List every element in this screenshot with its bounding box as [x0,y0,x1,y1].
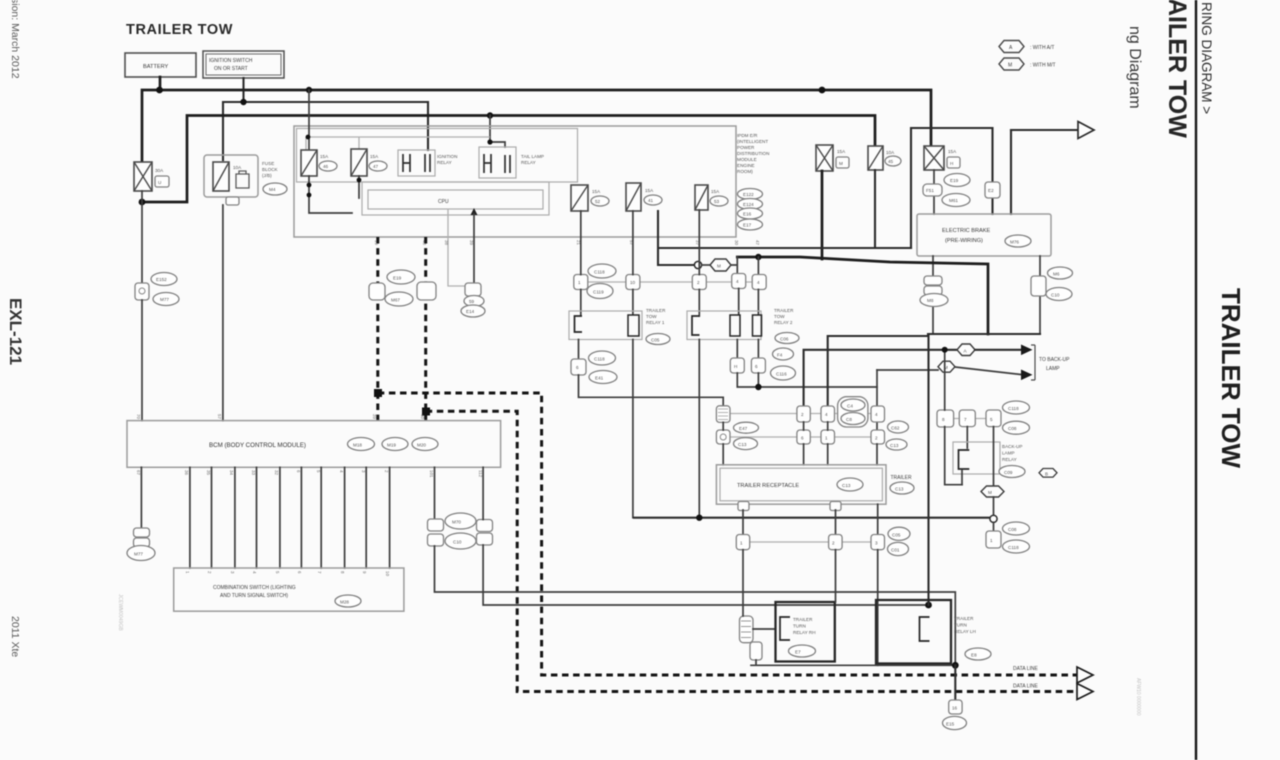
IPDM internal feed bus [306,137,490,150]
svg-text:F51: F51 [926,188,934,193]
lens A on backup line [957,344,975,356]
connector on brake right output [1031,267,1073,301]
wire CAN-L dashed branch to data line [426,411,1077,691]
legend lens M with M/T [999,58,1056,70]
node fuse1 lower dots [307,183,312,188]
svg-text:32: 32 [274,470,279,476]
wire backup feed A branch [804,350,957,406]
fusible link F (battery 30A) [134,162,169,191]
wire relay1 output to receptacle [579,375,724,406]
svg-text:46: 46 [323,164,329,169]
wire circle to lower pin [993,522,995,531]
svg-text:BACK-UP: BACK-UP [1002,444,1022,449]
lens M lower [981,486,1004,497]
fuse1 output loop [309,176,359,213]
svg-text:TOW: TOW [646,314,657,319]
wires rows into receptacle [723,422,877,465]
svg-text:TRAILER TOW: TRAILER TOW [126,22,233,38]
node turn relay ground junction [952,662,959,669]
svg-text:AND TURN SIGNAL SWITCH): AND TURN SIGNAL SWITCH) [220,593,288,599]
wire BCM pin112 [482,467,484,519]
svg-text:41: 41 [648,198,654,203]
wire CPU gray return [448,209,466,286]
svg-text:CPU: CPU [438,199,449,205]
svg-text:M77: M77 [160,297,169,302]
hatched connector at turn relay RH [740,550,776,643]
wire connector to BCM pin 70 [141,300,143,421]
connector cluster E19 M61 on brake batt wire [923,174,970,207]
svg-text:M18: M18 [353,443,362,448]
tail lamp relay [479,147,544,178]
svg-text:TURN: TURN [954,623,967,628]
svg-text:40: 40 [420,414,425,420]
connector E152 inline [135,273,179,306]
legend lens A with A/T [999,41,1054,53]
wire receptacle pin3 to turn relay area [877,550,879,666]
bracket to back-up lamp [1031,345,1035,380]
svg-text:MODULE: MODULE [737,157,757,162]
svg-text:C62: C62 [891,426,900,431]
svg-text:C08: C08 [1008,527,1017,532]
svg-text:57: 57 [217,414,222,420]
wire to back-up lamp arrow top [1011,129,1078,131]
connector ovals right of row C [886,421,909,450]
svg-text:M28: M28 [340,600,349,605]
ignition relay [398,150,457,176]
node CAN-H branch [374,389,382,397]
node LH coil junction [925,602,932,609]
fuse 15A no52 [571,185,609,211]
svg-text:RELAY: RELAY [521,160,536,165]
data line open arrow 2 [1077,684,1093,700]
IPDM inner fuse/relay sub-box [297,129,578,183]
BCM top pin numbers [136,414,425,420]
svg-text:: WITH A/T: : WITH A/T [1030,45,1054,51]
svg-text:E124: E124 [743,202,754,207]
svg-text:RELAY RH: RELAY RH [793,630,816,635]
svg-text:: WITH M/T: : WITH M/T [1030,63,1056,69]
svg-text:M70: M70 [452,520,461,525]
svg-text:15A: 15A [592,189,601,194]
wire turn signal LH to relay [483,545,928,605]
svg-text:36: 36 [184,470,189,476]
svg-text:(INTELLIGENT: (INTELLIGENT [737,139,768,144]
svg-text:E19: E19 [950,178,959,183]
svg-text:M4: M4 [269,187,276,192]
svg-text:4: 4 [757,280,760,285]
svg-text:C119: C119 [593,290,604,295]
node coil feed branch [755,254,761,260]
svg-text:C10: C10 [453,540,462,545]
svg-text:6: 6 [755,364,758,369]
wire arrow feed down to brake [1010,130,1012,214]
receptacle pin row B [716,406,884,423]
wire to filled arrow A [975,349,1021,351]
wire fusible link M down [821,171,824,259]
svg-text:DATA LINE: DATA LINE [1013,666,1038,672]
svg-text:TRAILER: TRAILER [646,308,666,313]
receptacle pin row C [716,430,884,444]
trailer tow relay 2 box [687,311,762,340]
arrow filled backup A [1021,345,1033,356]
wire fuse1 feed through IPDM top [308,90,310,150]
svg-text:E47: E47 [739,426,748,431]
connector ovals E47 C13 left [734,422,759,449]
wire ignition drop [242,78,244,102]
CPU outer box [362,182,549,215]
svg-text:45: 45 [888,159,894,164]
RH relay bottom pin [750,642,762,660]
svg-text:EXL-121: EXL-121 [6,298,25,365]
svg-text:M20: M20 [417,443,426,448]
BCM body control module box [127,421,501,468]
node relay2 output junction [755,384,761,390]
svg-text:5: 5 [990,417,993,422]
svg-text:IGNITION SWITCH: IGNITION SWITCH [209,58,253,64]
ground bus under turn relays [751,660,955,665]
svg-text:1: 1 [825,436,828,441]
svg-text:2: 2 [832,541,835,546]
ignition switch box [203,51,284,78]
svg-text:AILER TOW: AILER TOW [1163,0,1191,138]
node IPDM internal junction [306,135,311,140]
svg-text:C118: C118 [594,270,605,275]
svg-text:15A: 15A [711,189,720,194]
IPDM bottom pin numbers [374,240,760,246]
svg-text:15A: 15A [320,154,329,159]
relay1 contact output pin [571,340,617,384]
trailer receptacle outer label [890,475,914,494]
bus brake to backup/turn relays [928,333,1040,335]
svg-text:15A: 15A [645,188,654,193]
trailer turn relay LH label [954,616,991,660]
svg-text:101: 101 [429,470,434,478]
svg-text:2: 2 [801,412,804,417]
label to back-up lamp [1039,357,1070,372]
svg-text:M: M [839,161,843,166]
node tail relay feed junction [487,112,493,118]
wire relay2 coil pin drop [757,257,759,275]
node battery junction [156,87,163,94]
svg-text:TURN: TURN [793,624,806,629]
svg-text:TO BACK-UP: TO BACK-UP [1039,357,1070,363]
svg-text:4: 4 [736,279,739,284]
fusible link H (15A) [924,146,960,170]
svg-text:47: 47 [373,164,379,169]
svg-text:15A: 15A [948,149,957,154]
connector pin row below IPDM [574,274,766,290]
wire battery drop [159,77,162,90]
svg-text:TAIL LAMP: TAIL LAMP [521,154,544,159]
wire BCM pin101 turn RH [434,467,436,519]
svg-text:C13: C13 [895,487,904,492]
IPDM E/R label block [737,133,769,230]
svg-text:C05: C05 [892,532,901,537]
wire turn RH upper branch [828,336,928,406]
node fuse1 feed junction [306,87,312,93]
svg-text:E122: E122 [743,192,754,197]
trailer tow relay 1 label [646,308,670,345]
wire brake net down to LH coil [927,334,929,605]
svg-text:BLOCK: BLOCK [262,167,279,172]
svg-text:8: 8 [942,417,945,422]
wire relay2 outputs to receptacle [737,373,877,387]
svg-text:16: 16 [952,706,958,711]
svg-text:C05: C05 [651,338,660,343]
svg-text:ROOM): ROOM) [737,169,753,174]
svg-text:TRAILER: TRAILER [891,475,913,481]
combination switch pin numbers [185,571,390,577]
wire option branch with circle split [658,211,911,265]
svg-text:1: 1 [990,538,993,543]
svg-text:59: 59 [469,299,475,304]
svg-text:E8: E8 [971,653,977,658]
wire brake output left [932,256,934,334]
svg-text:ON OR START: ON OR START [214,66,248,72]
svg-text:BCM (BODY CONTROL MODULE): BCM (BODY CONTROL MODULE) [209,442,306,449]
svg-text:30: 30 [734,240,739,246]
fuse 15A no41 [626,183,662,211]
svg-text:C118: C118 [594,357,605,362]
electric brake pre-wiring box [917,214,1051,256]
svg-text:C08: C08 [1008,426,1017,431]
wire battery fuse to connector [141,191,143,283]
svg-text:4: 4 [875,412,878,417]
svg-text:COMBINATION SWITCH (LIGHTING: COMBINATION SWITCH (LIGHTING [213,585,296,591]
svg-text:3: 3 [875,541,878,546]
connector E14 for CPU wires [461,283,485,317]
wire to filled arrow M [955,367,1021,375]
svg-text:C10: C10 [1051,293,1060,298]
wire receptacle pin2 to RH coil [835,550,837,602]
lens M on backup line [938,361,955,372]
svg-text:52: 52 [595,199,601,204]
svg-text:E17: E17 [743,223,752,228]
trailer tow relay 1 box [569,311,642,340]
wire trailer tow relay coil feed net [737,257,988,334]
wire fuse block to BCM pin 57 [222,205,224,421]
svg-text:C118: C118 [1008,545,1019,550]
backup relay pins row [937,410,1001,427]
svg-text:C13: C13 [738,442,747,447]
off-page open arrow top right [1078,122,1094,139]
connector row guide lines [588,282,986,542]
svg-text:TRAILER TOW: TRAILER TOW [1216,288,1246,469]
connector M70 C10 inline pair [428,513,493,549]
connector block double oval C4 [838,397,868,427]
battery box [125,53,196,77]
svg-text:7: 7 [964,417,967,422]
fuse 10A no45 [868,146,901,170]
connector on CAN-L [417,282,436,300]
connector ovals C118 C119 [587,264,616,299]
CPU box [368,190,543,209]
fuse 15A no46 [301,150,337,176]
node ground bus fuse junction [696,515,702,521]
svg-text:E19: E19 [393,276,402,281]
svg-text:E15: E15 [946,722,955,727]
svg-text:E7: E7 [795,650,801,655]
svg-text:H: H [950,161,953,166]
bus tail lamp feed [142,116,875,203]
arrow filled backup M [1021,370,1033,381]
svg-text:TRAILER: TRAILER [774,308,794,313]
node tail relay drop dot [487,139,492,144]
svg-text:M: M [988,490,992,495]
svg-text:2011 Xte: 2011 Xte [9,616,21,657]
IPDM E/R box [294,126,736,237]
svg-text:ng Diagram: ng Diagram [1126,26,1143,109]
svg-text:H: H [734,364,737,369]
wires BCM to combination switch [190,467,390,568]
relay2 coil output pins [730,340,795,381]
svg-text:15A: 15A [370,154,379,159]
wire CAN-L dashed from IPDM [424,237,427,421]
svg-text:6: 6 [801,436,804,441]
svg-text:4: 4 [825,412,828,417]
svg-text:LAMP: LAMP [1002,451,1015,456]
svg-text:M76: M76 [1010,240,1019,245]
svg-text:M77: M77 [134,552,143,557]
wire backup relay coil [966,427,968,448]
svg-text:53: 53 [714,199,720,204]
svg-text:BATTERY: BATTERY [143,64,169,70]
svg-text:RELAY 2: RELAY 2 [774,320,793,325]
combination switch box [174,568,404,611]
wire fuse41 to relay1 coil [632,211,634,314]
svg-text:10A: 10A [233,165,242,170]
svg-text:TRAILER: TRAILER [954,616,974,621]
svg-text:C01: C01 [891,548,900,553]
svg-text:C8: C8 [846,417,852,422]
data line open arrow 1 [1077,667,1093,683]
wire backup relay output with lens M [993,427,995,486]
svg-text:M61: M61 [949,198,958,203]
svg-text:POWER: POWER [737,145,755,150]
svg-text:6: 6 [576,365,579,370]
wire CAN-H dashed branch to data line [378,393,1077,675]
receptacle bottom pin row D [736,504,884,550]
svg-text:IGNITION: IGNITION [437,154,457,159]
svg-text:10: 10 [385,571,390,577]
wire BCM pin67 to connector [140,467,142,528]
svg-text:15A: 15A [837,149,846,154]
fuse block J/B box [204,155,287,205]
svg-text:1: 1 [740,541,743,546]
wire relay2 contact down to ground bus [698,340,700,518]
svg-text:1: 1 [578,280,581,285]
svg-text:2: 2 [697,280,700,285]
svg-text:M: M [1008,63,1012,69]
svg-text:30A: 30A [155,168,164,173]
svg-text:M6: M6 [1053,272,1060,277]
wire 10A fuse to electric brake ign feed [875,128,993,248]
svg-text:39: 39 [469,240,474,246]
svg-text:M19: M19 [387,443,396,448]
svg-text:TRAILER RECEPTACLE: TRAILER RECEPTACLE [737,483,799,489]
node option split circle [694,261,701,268]
wire backup relay contact feed [945,350,962,485]
svg-text:AFW10 0000000: AFW10 0000000 [1135,678,1141,716]
wire relay1 coil down to ground bus [632,340,634,518]
svg-text:2: 2 [875,436,878,441]
svg-text:C118: C118 [1008,406,1019,411]
svg-text:C13: C13 [890,443,899,448]
back-up lamp relay label [999,444,1057,478]
svg-text:IPDM E/R: IPDM E/R [737,133,758,138]
connector double on brake left output [920,276,948,307]
svg-text:E152: E152 [156,277,167,282]
svg-text:C06: C06 [780,337,789,342]
svg-text:RELAY: RELAY [437,160,452,165]
svg-text:DISTRIBUTION: DISTRIBUTION [737,151,769,156]
svg-text:RELAY LH: RELAY LH [954,629,976,634]
connector M77 below BCM [127,528,155,561]
svg-text:ELECTRIC BRAKE: ELECTRIC BRAKE [942,228,990,234]
svg-text:ENGINE: ENGINE [737,163,755,168]
right margin rule line [1195,0,1197,760]
svg-text:LAMP: LAMP [1046,366,1060,372]
BCM bottom pin numbers [136,470,483,478]
wire CAN-H dashed from IPDM [376,237,379,421]
svg-text:M: M [717,264,721,269]
svg-text:M67: M67 [391,298,400,303]
svg-text:C116: C116 [776,372,787,377]
wire tail relay drop [490,116,505,148]
bus ignition IGN [223,102,428,160]
connector ovals right of row D [888,527,911,555]
connector ovals right backup pins [1003,401,1030,434]
fusible link M (15A) [816,145,849,171]
option lens M mid [702,257,737,274]
svg-text:M8: M8 [927,298,934,303]
svg-text:TOW: TOW [774,314,785,319]
fuse 15A no53 [695,185,728,210]
wire relay2 pin feeds [739,289,759,315]
svg-text:E2: E2 [988,188,994,193]
wire ground junction down through data lines [954,665,956,700]
wire backup feed M branch [877,369,938,371]
svg-text:70: 70 [136,414,141,420]
svg-text:(PRE-WIRING): (PRE-WIRING) [945,238,983,244]
node battery fuse bottom junction [139,199,146,206]
trailer receptacle box [716,465,886,504]
connector on brake ign wire [985,182,1000,198]
svg-text:E14: E14 [466,309,475,314]
connector on CAN-H [369,270,415,306]
svg-text:E16: E16 [743,212,752,217]
svg-text:JCEWM0049GB: JCEWM0049GB [117,594,123,631]
receptacle bottom tabs [738,502,749,511]
svg-text:38: 38 [444,240,449,246]
svg-text:E41: E41 [595,376,604,381]
svg-text:TRAILER: TRAILER [793,617,813,622]
svg-text:33: 33 [251,470,256,476]
svg-text:35: 35 [206,470,211,476]
svg-text:RELAY: RELAY [1002,457,1017,462]
svg-text:(J/B): (J/B) [262,173,272,178]
wire brake output right [1039,256,1041,334]
svg-text:10: 10 [630,280,636,285]
trailer turn relay LH box [876,600,951,664]
node open circle on ground bus [990,515,997,522]
svg-text:39: 39 [372,414,377,420]
svg-text:F4: F4 [777,353,783,358]
svg-text:C13: C13 [842,483,851,488]
svg-text:B: B [1045,471,1048,476]
trailer tow relay 2 label [773,308,800,360]
svg-text:RING DIAGRAM >: RING DIAGRAM > [1199,2,1214,114]
